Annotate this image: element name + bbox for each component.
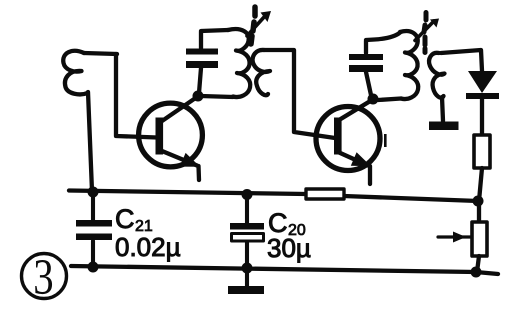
svg-text:3: 3 — [33, 249, 53, 305]
svg-text:C: C — [115, 204, 135, 234]
svg-text:0.02µ: 0.02µ — [115, 232, 181, 262]
svg-text:30µ: 30µ — [267, 233, 311, 263]
